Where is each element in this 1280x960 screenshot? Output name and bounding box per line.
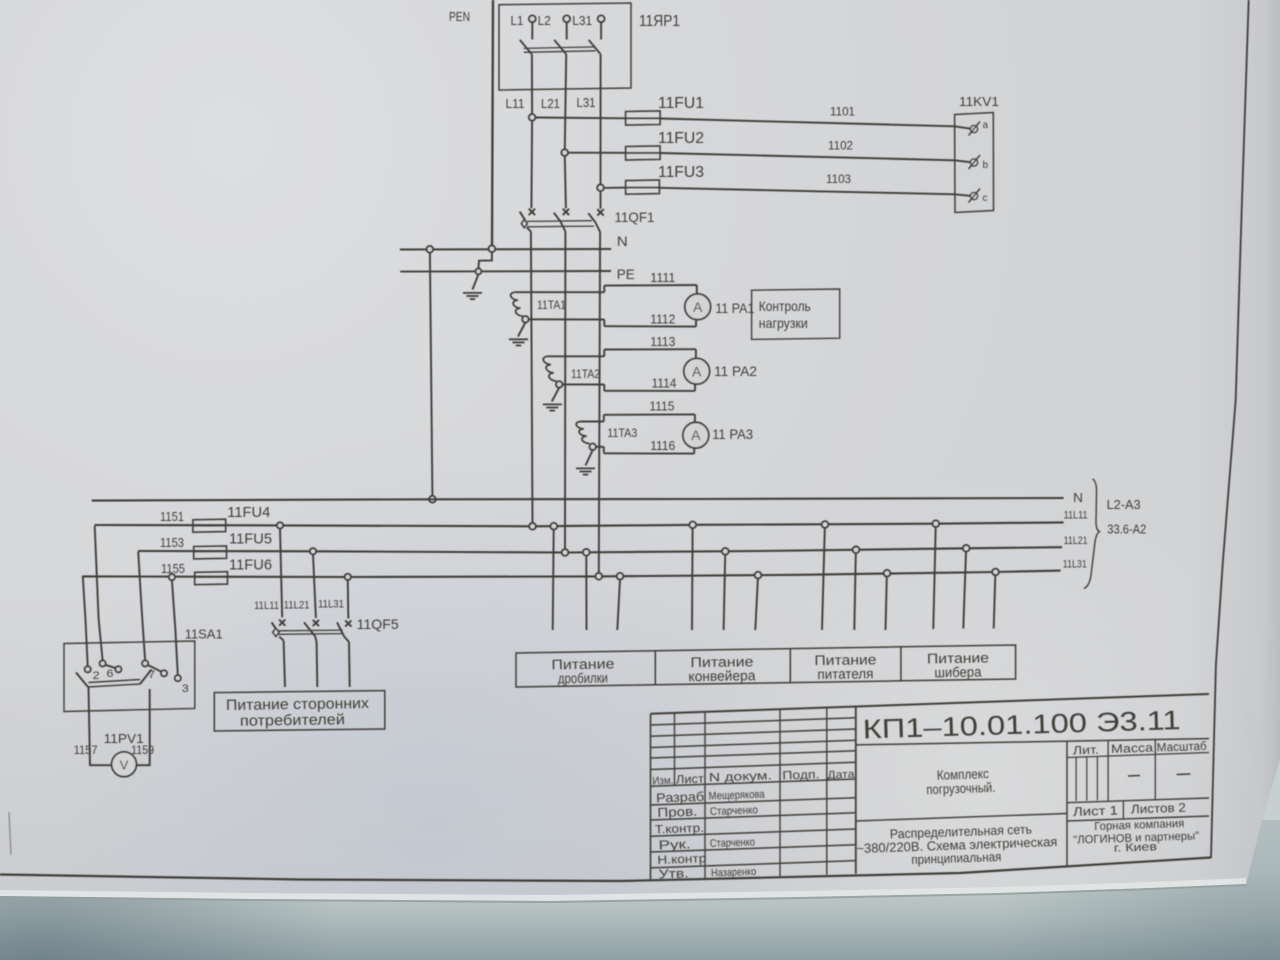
wire phase L21 vertical upper — [565, 54, 566, 149]
node TA1 secondary terminal circle — [522, 316, 528, 322]
svg-text:PE: PE — [617, 266, 635, 282]
svg-text:11 PA2: 11 PA2 — [714, 363, 757, 379]
svg-text:N: N — [617, 233, 628, 249]
svg-text:1159: 1159 — [131, 743, 154, 757]
svg-text:потребителей: потребителей — [240, 711, 345, 729]
node circle on N from PEN — [489, 246, 496, 253]
svg-text:PEN: PEN — [449, 9, 470, 24]
svg-text:Рук.: Рук. — [658, 836, 691, 852]
title block top border — [651, 694, 1210, 714]
node circle feeder3 L21 — [853, 547, 860, 554]
svg-text:1101: 1101 — [830, 105, 855, 119]
svg-text:Старченко: Старченко — [710, 836, 755, 850]
svg-text:11ЯР1: 11ЯР1 — [639, 13, 680, 30]
bus 11L21 — [138, 547, 1062, 552]
contact bridge 6 — [105, 665, 116, 668]
contact circle 7b — [161, 670, 167, 676]
fuse 11FU1 — [626, 111, 661, 125]
wire 1116 into ammeter — [693, 448, 695, 454]
feeder box separator 2 — [789, 649, 791, 683]
svg-text:питателя: питателя — [817, 665, 873, 682]
node circle feeder4 L31 — [992, 569, 999, 576]
svg-text:Изм.: Изм. — [652, 775, 673, 788]
svg-text:A: A — [692, 363, 702, 379]
wire phase L31 vertical upper — [600, 54, 602, 184]
wire phase2 QF1 to bus 11L21 — [564, 232, 566, 550]
node circle feeder2 L11 — [689, 522, 696, 529]
col divider Лист-Листов — [1122, 801, 1124, 819]
svg-text:L1: L1 — [511, 13, 524, 28]
svg-text:Лист: Лист — [676, 772, 705, 787]
terminal L2 circle — [563, 15, 570, 22]
wire 1153 drop to SA1 contact 7 — [138, 552, 145, 661]
breaker 11QF5 lower jog pole3 — [344, 636, 349, 642]
bus 11L31 — [82, 571, 1060, 577]
bus 11L11 — [95, 522, 1064, 526]
svg-text:11SA1: 11SA1 — [185, 627, 223, 642]
breaker 11QF1 lower jog pole2 — [560, 221, 565, 231]
wire jog 1113 up — [603, 350, 605, 357]
node circle feeder1 L21 — [583, 549, 590, 556]
svg-text:c: c — [983, 193, 988, 204]
line under doc number — [856, 739, 1209, 745]
wire QF5 pole3 down — [348, 642, 351, 687]
svg-text:11 PA3: 11 PA3 — [712, 426, 753, 442]
voltmeter 11PV1 — [112, 752, 137, 777]
svg-text:11KV1: 11KV1 — [959, 94, 999, 109]
wire QF5 pole2 down — [316, 642, 319, 687]
ammeter 11PA2 — [684, 358, 710, 384]
wire SA1 to voltmeter left — [89, 688, 112, 766]
wire 1115 into ammeter — [694, 414, 696, 422]
contact circle 7a — [142, 660, 148, 666]
node circle on PE — [476, 269, 482, 275]
svg-text:Назаренко: Назаренко — [711, 866, 756, 880]
col Масса left — [1107, 741, 1109, 801]
wire feeder1 L11 drop — [553, 530, 554, 631]
svg-text:Масса: Масса — [1111, 741, 1154, 756]
title table row Тконтр bottom — [651, 829, 856, 836]
title table row line 4 — [651, 751, 856, 758]
terminal L1 circle — [529, 15, 536, 22]
switch 11ЯР1 blade pole2 — [554, 40, 566, 54]
svg-text:2: 2 — [93, 670, 100, 682]
node circle QF5 tap 3 — [345, 574, 351, 580]
svg-text:11L11: 11L11 — [1064, 510, 1088, 522]
fuse 11FU2 — [626, 146, 661, 160]
wire TA1 secondary top — [516, 291, 605, 293]
wire QF5 pole3 drop — [347, 580, 350, 619]
wire 1114 into ammeter — [694, 384, 696, 391]
wire TA1 secondary bottom — [529, 318, 605, 320]
outlet block 11KV1 box — [955, 113, 994, 213]
wire feeder4 L21 drop — [963, 552, 966, 629]
wire TA3 secondary top — [581, 421, 604, 423]
wire 1113 into ammeter — [695, 349, 697, 358]
svg-text:1157: 1157 — [74, 743, 98, 757]
Масштаб value dash — [1177, 773, 1191, 776]
wire feeder4 L31 drop — [994, 575, 996, 628]
node circle QF5 tap 1 — [277, 522, 283, 528]
svg-text:11L21: 11L21 — [1064, 535, 1088, 547]
feeder box separator 1 — [654, 651, 656, 685]
svg-text:L31: L31 — [577, 95, 596, 110]
svg-text:1114: 1114 — [652, 377, 677, 391]
breaker 11QF5 lower jog pole2 — [315, 636, 316, 642]
wire jog 1116 down — [603, 447, 605, 454]
svg-text:11 PA1: 11 PA1 — [715, 300, 754, 316]
title table col Дата right — [855, 707, 857, 874]
breaker 11QF1 lower jog pole1 — [527, 227, 531, 231]
svg-text:Листов 2: Листов 2 — [1131, 801, 1186, 817]
svg-text:Пров.: Пров. — [657, 804, 697, 820]
ground symbol PE — [463, 292, 482, 294]
breaker 11QF1 blade pole3 — [588, 213, 595, 222]
breaker 11QF5 blade pole2 — [304, 622, 315, 636]
svg-text:N: N — [1073, 490, 1083, 505]
wire QF5 pole2 drop — [313, 554, 316, 618]
wire N vertical to lower bus — [430, 253, 433, 496]
wire phase L11 vertical to 11QF1 — [530, 121, 533, 209]
note box Контроль нагрузки — [752, 289, 840, 339]
breaker 11QF5 contact cross pole1 — [279, 620, 285, 626]
wire feeder3 L31 drop — [886, 577, 887, 631]
wire jog 1114 down — [603, 385, 605, 391]
fuse 11FU4 — [193, 519, 226, 532]
wire stub pole3 — [600, 22, 602, 39]
wire phase L21 vertical to 11QF1 — [565, 156, 566, 208]
node circle feeder1 L11 — [551, 523, 558, 530]
wire 1101 — [660, 119, 955, 127]
svg-text:1111: 1111 — [650, 271, 675, 285]
title table header bottom line — [651, 779, 856, 786]
wire 1151 corner — [94, 525, 96, 527]
svg-text:11FU1: 11FU1 — [658, 95, 704, 112]
breaker 11QF1 contact cross pole2 — [563, 209, 569, 215]
CT 11TA1 winding bumps — [511, 292, 523, 316]
ammeter 11PA3 — [683, 422, 709, 448]
svg-text:L2: L2 — [538, 13, 551, 28]
fuse 11FU6 — [195, 572, 228, 585]
svg-text:принципиальная: принципиальная — [911, 849, 1001, 867]
svg-text:L2-A3: L2-A3 — [1107, 497, 1141, 512]
wire phase3 QF1 to bus 11L31 — [599, 232, 600, 573]
svg-text:1115: 1115 — [649, 400, 674, 414]
svg-text:11FU3: 11FU3 — [658, 164, 704, 181]
brace bus group — [1084, 479, 1100, 589]
wire feeder2 L31 drop — [755, 578, 758, 630]
svg-text:конвейера: конвейера — [688, 667, 755, 684]
svg-text:A: A — [691, 427, 701, 443]
svg-text:1112: 1112 — [650, 313, 675, 327]
svg-text:Лист 1: Лист 1 — [1073, 803, 1119, 819]
wire 1155 circle drop to SA1 contact 3 — [172, 580, 178, 675]
fuse 11FU3 — [626, 180, 660, 194]
node circle QF5 tap 2 — [310, 548, 316, 554]
wire 1115 — [604, 413, 695, 415]
svg-text:1116: 1116 — [650, 439, 675, 453]
node TA3 secondary terminal circle — [590, 444, 596, 450]
line above company cell — [1067, 816, 1209, 821]
drawing frame bottom border — [0, 858, 1211, 882]
phase tap c symbol — [970, 192, 977, 199]
wire 1102 — [660, 153, 955, 160]
svg-text:Мещерякова: Мещерякова — [708, 789, 765, 803]
svg-text:11L31: 11L31 — [318, 599, 344, 611]
svg-text:11FU5: 11FU5 — [229, 531, 272, 548]
phase tap a symbol — [970, 125, 977, 132]
svg-text:3: 3 — [182, 683, 189, 695]
wire 1151 drop to SA1 contact 6 — [95, 526, 103, 661]
title table row line 3 — [651, 740, 856, 747]
wire TA1 to ground — [518, 323, 525, 337]
node circle on N for down feeder — [427, 246, 434, 253]
wire 1114 — [604, 390, 695, 392]
svg-text:Н.контр: Н.контр — [657, 851, 707, 867]
svg-text:Масштаб: Масштаб — [1157, 739, 1208, 755]
breaker 11QF1 contact cross pole3 — [597, 209, 603, 215]
svg-text:Утв.: Утв. — [658, 865, 689, 881]
wire to fuse 11FU1 — [535, 117, 625, 120]
breaker 11QF1 lower jog pole3 — [595, 222, 600, 232]
breaker 11QF1 linkage bar — [527, 220, 592, 223]
svg-text:Разраб: Разраб — [656, 789, 704, 806]
contact circle 6a — [100, 660, 106, 666]
wire 1112 — [604, 325, 696, 327]
divider центр cell — [856, 814, 1067, 822]
title table row line 2 — [651, 729, 856, 736]
node circle feeder3 L31 — [884, 570, 891, 577]
wire feeder4 L11 drop — [933, 527, 935, 629]
switch 11SA1 wiper blade left — [76, 673, 88, 688]
breaker 11QF1 blade pole1 — [520, 212, 526, 221]
svg-text:11FU6: 11FU6 — [229, 557, 272, 574]
wire voltmeter right up — [136, 689, 149, 765]
title table col Изм — [674, 713, 676, 786]
wire 1103 — [659, 188, 954, 195]
svg-text:1153: 1153 — [160, 536, 184, 550]
fuse 11FU5 — [194, 546, 227, 559]
svg-text:11L11: 11L11 — [254, 600, 279, 612]
switch 11SA1 wiper bar — [88, 684, 140, 687]
svg-text:Подп.: Подп. — [782, 767, 819, 782]
wire to fuse 11FU2 — [568, 152, 626, 154]
node circle feeder4 L11 — [933, 520, 940, 527]
svg-text:шибера: шибера — [934, 664, 981, 681]
ground symbol TA1 — [509, 338, 528, 340]
breaker 11QF1 blade pole2 — [554, 213, 561, 222]
contact bridge 7 — [148, 665, 162, 672]
feeder box separator 3 — [900, 647, 902, 681]
svg-text:нагрузки: нагрузки — [759, 315, 808, 331]
title table col Подп — [826, 708, 828, 875]
line above Лист row — [1067, 798, 1209, 803]
wire PE to ground — [473, 274, 479, 289]
node circle SA1 tap on 1155 — [169, 574, 175, 580]
node circle L31 phase in — [596, 573, 603, 580]
wire TA3 secondary bottom — [596, 446, 604, 448]
contact circle 6b — [115, 666, 121, 672]
ammeter 11PA1 — [685, 294, 711, 320]
svg-text:Лит.: Лит. — [1073, 743, 1099, 758]
title table row line 1 — [651, 718, 856, 725]
paper bottom edge highlight — [0, 881, 1246, 898]
wire to fuse 11FU3 — [604, 187, 626, 189]
wire feeder3 L21 drop — [854, 553, 856, 630]
svg-text:г. Киев: г. Киев — [1114, 841, 1157, 854]
wire QF5 pole1 drop — [280, 529, 282, 618]
wire feeder2 L11 drop — [691, 528, 694, 630]
node TA2 secondary terminal circle — [556, 381, 562, 387]
svg-text:6: 6 — [107, 668, 114, 680]
wire 1116 — [604, 452, 694, 454]
paper bottom edge shadow — [0, 885, 1246, 902]
breaker 11QF5 blade pole3 — [337, 622, 344, 636]
svg-text:a: a — [983, 120, 989, 131]
wire PEN vertical — [492, 0, 493, 246]
svg-text:Т.контр.: Т.контр. — [655, 821, 704, 837]
svg-text:дробилки: дробилки — [558, 670, 608, 687]
bus PE line — [400, 270, 611, 273]
breaker 11QF5 linkage bar — [277, 629, 342, 632]
drawing frame left border fragment — [9, 812, 11, 855]
svg-text:11L21: 11L21 — [284, 599, 310, 611]
switch 11SA1 wiper blade right — [140, 670, 152, 685]
title table row Разраб bottom — [651, 798, 856, 805]
switch 11SA1 box — [64, 641, 195, 712]
ground symbol TA2 — [543, 403, 562, 405]
svg-text:33.6-A2: 33.6-A2 — [1107, 522, 1146, 537]
svg-text:L21: L21 — [541, 96, 560, 111]
node circle L21 phase in — [562, 549, 569, 556]
breaker 11QF1 contact cross pole1 — [529, 209, 535, 215]
svg-text:11FU2: 11FU2 — [658, 130, 704, 147]
header line under Лит-Масса-Масштаб — [1067, 753, 1209, 758]
breaker 11QF5 contact cross pole2 — [313, 620, 319, 626]
node circle on lower N bus — [429, 496, 436, 503]
wire 1113 — [604, 348, 696, 350]
title block left table outer — [650, 714, 652, 881]
wire phase L31 vertical to 11QF1 — [600, 191, 602, 209]
wire feeder1 L21 drop — [585, 556, 587, 630]
wire QF5 pole1 down — [284, 641, 285, 687]
terminal L31 circle — [598, 15, 605, 22]
wire 1112 into ammeter — [695, 320, 697, 327]
node circle L11 phase in — [529, 523, 536, 530]
wire into tap a — [955, 126, 971, 128]
box Питание сторонних потребителей — [214, 691, 384, 731]
bus N main — [92, 498, 1064, 501]
wire TA2 secondary top — [548, 355, 604, 357]
svg-text:11TA2: 11TA2 — [571, 367, 600, 381]
svg-text:N докум.: N докум. — [709, 768, 772, 784]
node circle feeder2 L21 — [722, 548, 729, 555]
svg-text:A: A — [693, 299, 703, 315]
CT 11TA2 winding bumps — [543, 356, 556, 381]
node junction circle L21-FU2 — [561, 149, 568, 156]
CT 11TA3 winding bumps — [576, 422, 589, 444]
contact circle 3 — [175, 675, 181, 681]
svg-text:L31: L31 — [572, 13, 592, 28]
Масса value dash — [1128, 775, 1140, 778]
svg-text:1102: 1102 — [828, 139, 853, 153]
node junction circle L31-FU3 — [597, 185, 604, 192]
switch 11ЯР1 linkage bar — [524, 47, 596, 49]
wire TA3 to ground — [586, 450, 593, 466]
wire 1111 — [604, 284, 697, 287]
svg-text:V: V — [120, 757, 129, 772]
svg-text:погрузочный.: погрузочный. — [926, 780, 995, 797]
wire phase L11 vertical upper — [531, 54, 533, 114]
wire 1111 into ammeter — [696, 285, 698, 294]
switch 11ЯР1 blade pole3 — [589, 40, 601, 54]
title table row Нконтр bottom — [651, 861, 856, 868]
wire jog 1111 up — [603, 286, 605, 293]
wire feeder1 L31 drop — [617, 580, 620, 631]
wire TA2 secondary bottom — [562, 383, 604, 385]
node circle feeder1 L31 — [617, 573, 624, 580]
svg-text:b: b — [983, 160, 989, 171]
phase tap b symbol — [970, 159, 977, 166]
wire 1155 drop to SA1 contact 2 — [83, 576, 88, 666]
wire phase1 QF1 to bus 11L11 — [531, 232, 533, 524]
title table header top line — [651, 762, 856, 769]
svg-text:11QF5: 11QF5 — [357, 616, 399, 632]
wire jog 1115 up — [603, 415, 605, 422]
svg-text:Контроль: Контроль — [759, 298, 811, 314]
svg-text:Старченко: Старченко — [710, 804, 758, 818]
wire stub pole2 — [566, 22, 568, 39]
feeder boxes row — [516, 645, 1016, 687]
wire jog 1112 down — [603, 320, 605, 327]
drawing frame right border — [1211, 0, 1249, 858]
wire feeder2 L21 drop — [724, 555, 726, 630]
svg-text:11QF1: 11QF1 — [615, 209, 655, 225]
breaker 11QF5 pivot square — [273, 628, 280, 637]
bus N line — [400, 248, 611, 251]
svg-text:11TA3: 11TA3 — [607, 426, 637, 440]
svg-text:1103: 1103 — [826, 172, 851, 186]
wire TA2 to ground — [552, 388, 559, 402]
svg-text:11L31: 11L31 — [1063, 559, 1087, 571]
svg-text:L11: L11 — [506, 96, 525, 111]
col Лит left — [1066, 741, 1068, 866]
wire jog PEN to PE — [478, 252, 492, 268]
title table row Пров bottom — [651, 813, 856, 820]
title table col Ндокум — [779, 709, 781, 876]
ground symbol TA3 — [576, 467, 595, 469]
node circle feeder4 L21 — [963, 545, 970, 552]
node junction circle L11-FU1 — [529, 114, 536, 121]
col Масштаб left — [1154, 739, 1156, 799]
breaker 11QF5 lower jog pole1 — [279, 637, 283, 641]
wire into tap b — [955, 160, 971, 162]
switch unit 11ЯР1 enclosure box — [499, 3, 631, 90]
node circle feeder3 L11 — [822, 521, 829, 528]
breaker 11QF5 blade pole1 — [272, 622, 276, 629]
svg-text:1151: 1151 — [160, 510, 184, 524]
contact circle 2 — [85, 666, 91, 672]
svg-text:11FU4: 11FU4 — [227, 504, 270, 521]
breaker 11QF1 pivot square — [521, 219, 527, 227]
node circle feeder2 L31 — [755, 572, 762, 579]
title table row Рук bottom — [651, 845, 856, 852]
wire stub pole1 — [531, 22, 533, 39]
wire into tap c — [955, 194, 971, 196]
svg-text:Дата: Дата — [827, 769, 855, 782]
title table col Лист — [704, 712, 706, 879]
svg-text:11TA1: 11TA1 — [537, 298, 566, 312]
